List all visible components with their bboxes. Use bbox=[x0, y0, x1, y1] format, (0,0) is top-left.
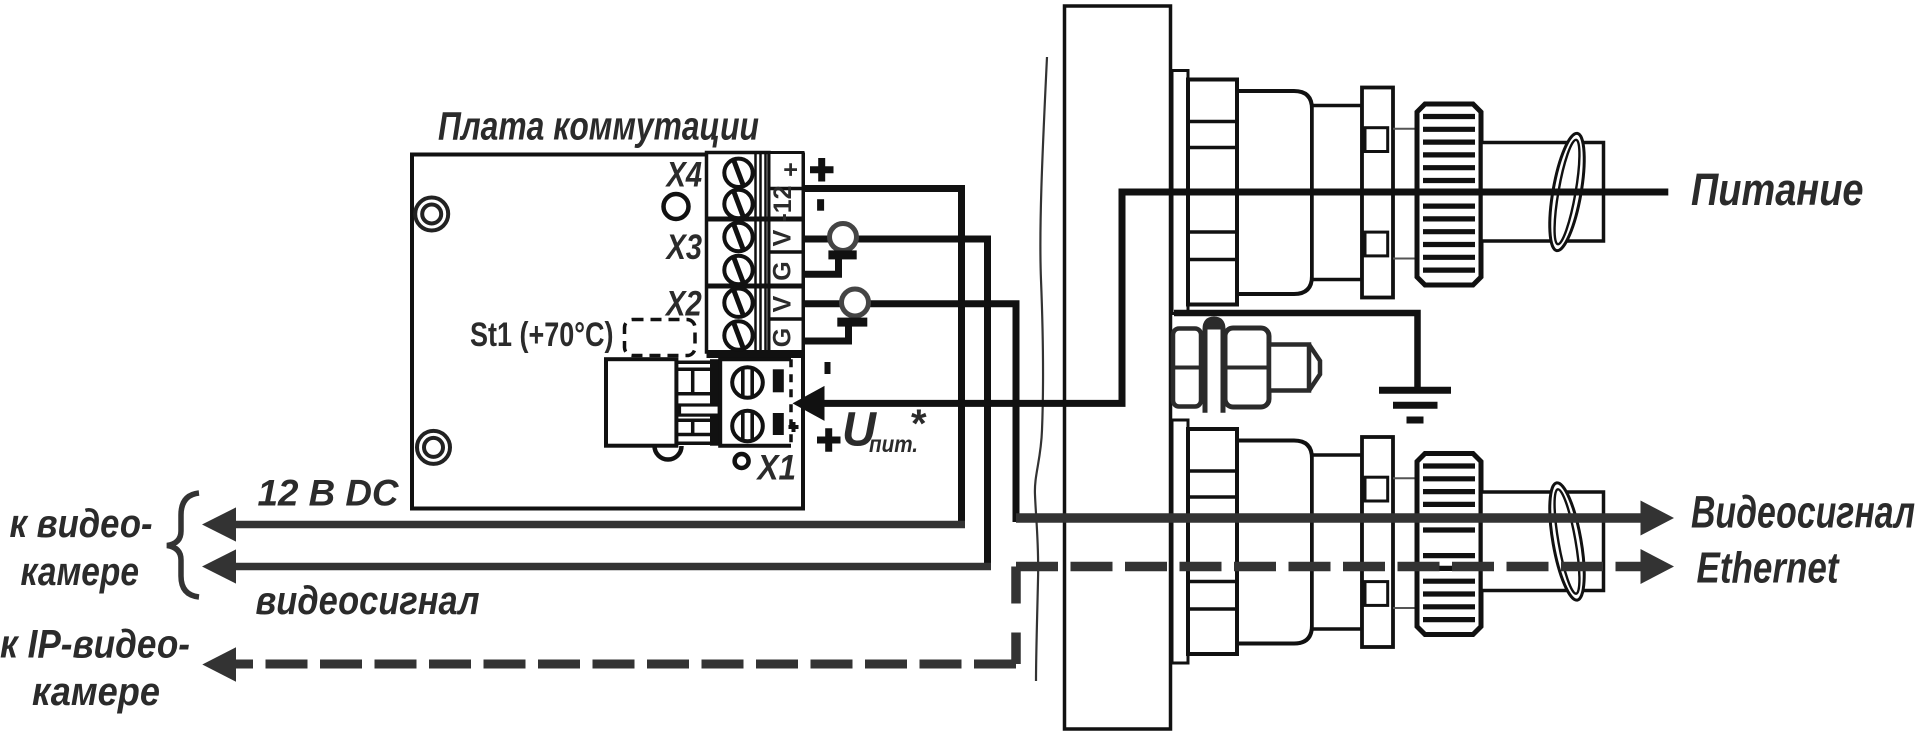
mounting hole bottom-left bbox=[417, 431, 450, 464]
grounding bolt bbox=[1173, 319, 1320, 413]
wire V video from X3 (black part) bbox=[803, 239, 988, 570]
X1 indicator hole bbox=[735, 454, 749, 468]
svg-text:камере: камере bbox=[32, 670, 160, 714]
cable band (power) bbox=[1543, 131, 1591, 253]
polarity mark plus (X4) bbox=[810, 158, 834, 182]
wire G shield X2 bbox=[803, 325, 849, 341]
wire V video from X2 (black part) bbox=[803, 304, 1016, 522]
hole near X4 bbox=[664, 194, 689, 219]
svg-text:видеосигнал: видеосигнал bbox=[256, 579, 480, 623]
svg-text:X1: X1 bbox=[756, 448, 796, 488]
svg-text:+: + bbox=[777, 162, 805, 177]
ground symbol bbox=[1379, 390, 1451, 420]
arrowhead 12 V DC bbox=[202, 507, 236, 541]
grounding bolt pin bbox=[1205, 319, 1223, 413]
terminal label column bbox=[769, 153, 803, 353]
arrowhead Video signal bbox=[1641, 501, 1675, 536]
terminal strip X4/X3/X2 bbox=[707, 153, 770, 353]
svg-text:Ethernet: Ethernet bbox=[1697, 544, 1841, 593]
cable gland (video), lower bbox=[1172, 420, 1604, 663]
terminal screws bbox=[724, 159, 752, 350]
svg-text:*: * bbox=[911, 402, 927, 446]
terminal section dividers bbox=[707, 217, 804, 222]
X1 separator bar bbox=[710, 359, 720, 446]
arrowhead Ethernet bbox=[1641, 549, 1675, 584]
svg-text:к IP-видео-: к IP-видео- bbox=[0, 623, 190, 667]
svg-text:G: G bbox=[769, 328, 797, 347]
svg-text:Видеосигнал: Видеосигнал bbox=[1691, 487, 1915, 538]
cable band (video) bbox=[1543, 480, 1591, 602]
polarity mark minus (X4) bbox=[817, 199, 824, 211]
polarity mark plus (X1) bbox=[817, 428, 841, 452]
wire video signal to camera (gray) bbox=[218, 563, 991, 571]
switching board outline bbox=[412, 155, 803, 509]
X1 plus mark (small) bbox=[789, 422, 799, 432]
svg-text:X2: X2 bbox=[664, 284, 702, 324]
svg-text:12 В DC: 12 В DC bbox=[258, 473, 400, 514]
brace to camera bbox=[167, 493, 199, 597]
wire -12V from X4 to camera (black part) bbox=[803, 189, 962, 529]
mounting hole top-left bbox=[415, 198, 448, 231]
svg-text:-12: -12 bbox=[769, 186, 797, 222]
X1 clamps bbox=[773, 369, 784, 392]
coax plug symbol X2 bbox=[842, 289, 869, 316]
wire Upit power supply bbox=[806, 192, 1668, 403]
X1 terminal block bbox=[720, 359, 791, 446]
svg-text:Плата коммутации: Плата коммутации bbox=[438, 105, 759, 149]
svg-text:X3: X3 bbox=[665, 227, 702, 267]
wire to ground bolt bbox=[1174, 313, 1418, 387]
svg-text:St1 (+70°C): St1 (+70°C) bbox=[470, 316, 614, 354]
arrowhead video signal bbox=[202, 549, 236, 583]
X1 power jack body bbox=[606, 359, 676, 446]
arrowhead to IP camera bbox=[202, 647, 236, 681]
coax plug symbol X3 bbox=[830, 224, 857, 251]
svg-text:V: V bbox=[769, 295, 797, 312]
wire Ethernet dashed bbox=[1016, 562, 1642, 572]
wall panel bbox=[1065, 6, 1171, 729]
polarity mark minus (X1) bbox=[825, 362, 831, 374]
X1 screws bbox=[732, 367, 763, 441]
svg-text:камере: камере bbox=[21, 550, 140, 594]
break line bbox=[1035, 57, 1047, 681]
X1 jack mounting half-hole bbox=[655, 446, 682, 460]
svg-text:к видео-: к видео- bbox=[10, 502, 153, 546]
svg-text:X4: X4 bbox=[665, 155, 702, 195]
wire 12 V DC to camera (gray) bbox=[218, 521, 965, 529]
svg-text:Питание: Питание bbox=[1691, 164, 1864, 215]
cable gland (power), upper bbox=[1172, 71, 1604, 314]
X1 jack pins bbox=[676, 362, 710, 443]
terminal strip bottom bar bbox=[707, 350, 804, 358]
X1 middle bar bbox=[680, 405, 720, 415]
wire G shield X3 bbox=[803, 258, 839, 274]
svg-text:V: V bbox=[769, 229, 797, 246]
thermostat St1 dashed outline bbox=[625, 320, 696, 356]
svg-text:G: G bbox=[769, 261, 797, 280]
arrowhead Upit bbox=[793, 386, 825, 421]
wire Video signal output (gray) bbox=[1016, 513, 1643, 523]
